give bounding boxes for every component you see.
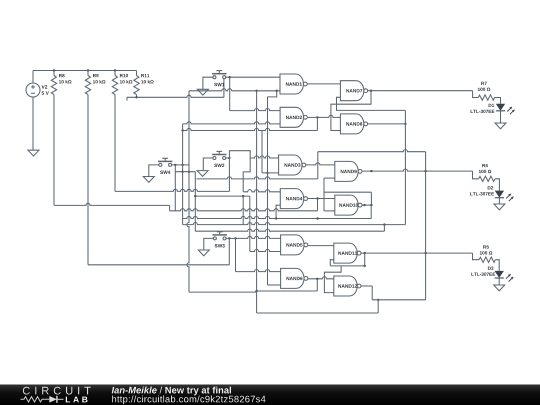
wire NAND8 out to bus V405 bbox=[368, 123, 406, 125]
wire SW4 sub-bus bbox=[174, 165, 176, 211]
logo LAB bbox=[66, 397, 88, 403]
logo diode bbox=[49, 396, 57, 403]
ground D3 bbox=[494, 285, 505, 291]
node NAND1-B fb2 bbox=[276, 90, 278, 92]
wire jog to bus x267 bbox=[268, 91, 277, 97]
gate NAND8 bbox=[340, 114, 363, 134]
wire NAND4 out drop bbox=[317, 199, 319, 211]
wire SW3 node down to R9 line bbox=[228, 238, 230, 264]
node SW4 a bbox=[174, 164, 176, 166]
LED D3 bbox=[495, 271, 504, 278]
gate NAND11 bbox=[334, 243, 357, 263]
wire SW4 right terminal bbox=[172, 164, 190, 166]
node SW1 out bbox=[229, 76, 231, 78]
wire NAND9 out to R6 bbox=[362, 169, 473, 171]
wire bus V243 bbox=[242, 196, 244, 225]
wire NAND4 out to NAND10 input A bbox=[308, 198, 335, 200]
wire bus V189 (NAND1-B feedback) bbox=[187, 91, 189, 292]
ground SW1 bbox=[197, 89, 208, 95]
node R11 bottom bbox=[135, 96, 137, 98]
ground D2 bbox=[494, 204, 505, 210]
resistor R8 bbox=[51, 76, 56, 95]
node NAND9-R6 bus bbox=[424, 170, 426, 172]
wire V378 riser bbox=[377, 300, 379, 313]
voltage source V2 bbox=[32, 71, 34, 84]
wire bus V256 down bbox=[256, 91, 258, 313]
wire R9 line bbox=[88, 264, 229, 266]
wire SW3 left to ground bbox=[204, 238, 213, 250]
gate NAND10 bbox=[335, 195, 358, 215]
wire bus H231 bbox=[195, 229, 384, 231]
wire NAND12 out drop bbox=[371, 286, 373, 300]
wire NAND11 input B stub bbox=[330, 260, 334, 266]
wire NAND6 input B bbox=[268, 284, 281, 286]
gate NAND5 bbox=[281, 235, 304, 255]
wire NAND7 fb down-left bbox=[331, 91, 371, 131]
wire NAND10 out riser to H218 bbox=[370, 205, 372, 218]
wire bus V384 riser bbox=[383, 225, 385, 232]
footer url bbox=[112, 396, 265, 405]
node NAND2 out bbox=[316, 116, 318, 118]
wire D1 to ground bbox=[500, 111, 502, 123]
node bus256 bottom bbox=[255, 290, 257, 292]
node SW4 b bbox=[181, 164, 183, 166]
resistor R7 bbox=[473, 91, 479, 98]
gate NAND12 bbox=[334, 276, 357, 296]
wire bus V250 bbox=[249, 196, 251, 251]
resistor R6 bbox=[473, 171, 479, 179]
wire R8 line jog bbox=[54, 203, 170, 205]
footer titles bbox=[112, 387, 157, 394]
wire V324 branch bbox=[323, 178, 325, 211]
wire R10 line to SW2 bbox=[115, 189, 229, 191]
wire NAND3 out to NAND9 bbox=[306, 163, 335, 165]
switch SW4 bbox=[159, 163, 162, 166]
wire NAND2 out to NAND8 input A bbox=[307, 115, 340, 117]
wire SW2 left to ground bbox=[203, 158, 213, 171]
node NAND7 out bbox=[370, 90, 372, 92]
wire NAND5 out to NAND11 bbox=[308, 245, 334, 247]
node V378 bbox=[377, 299, 379, 301]
wire bus H310 bbox=[257, 312, 379, 314]
node SW3 out a bbox=[228, 237, 230, 239]
switch SW2 bbox=[213, 157, 216, 160]
node rail-R9 bbox=[87, 69, 89, 71]
node sub-bus c bbox=[188, 171, 190, 173]
wire SW1 right terminal down bbox=[223, 79, 225, 98]
node rail-R10 bbox=[114, 69, 116, 71]
wire NAND7 out to R7 bbox=[368, 90, 473, 92]
wire D2 to ground bbox=[498, 198, 500, 204]
switch SW1 bbox=[213, 76, 216, 79]
resistor R11 bbox=[134, 76, 139, 95]
wire NAND10 input B bbox=[324, 210, 335, 212]
wire SW3 branch down bbox=[235, 238, 237, 271]
wire H179 bbox=[196, 177, 317, 179]
node NAND1-B fb1 bbox=[255, 90, 257, 92]
ground SW4 bbox=[143, 177, 154, 183]
wire SW2 node down to R10 line bbox=[228, 158, 230, 191]
switch SW3 bbox=[213, 237, 216, 240]
gate NAND4 bbox=[280, 189, 303, 209]
wire NAND3 input B line bbox=[262, 172, 279, 174]
wire H299 bbox=[372, 299, 425, 301]
wire NAND6 input A bbox=[236, 270, 281, 272]
CircuitLab logo footer bbox=[0, 385, 540, 405]
wire NAND1 out to NAND7 bbox=[307, 83, 340, 85]
node H224-V384 bbox=[383, 223, 385, 225]
wire SW2 branch to NAND4 input A bbox=[243, 158, 250, 192]
LED D2 bbox=[495, 191, 504, 198]
wire NAND2 input B bbox=[183, 122, 281, 124]
gate NAND9 bbox=[335, 161, 358, 181]
wire bus V267 down bbox=[267, 97, 269, 285]
wire NAND1 input B bbox=[189, 89, 280, 91]
wire bus H218 (row2 lockout) bbox=[183, 216, 372, 218]
gate NAND7 bbox=[340, 81, 363, 101]
resistor R5 bbox=[473, 253, 480, 260]
node V425 nand11 bbox=[424, 252, 426, 254]
wire V317 drop bbox=[317, 152, 319, 179]
LED D1 bbox=[496, 104, 505, 111]
wire SW1 node down to NAND2 input A bbox=[229, 77, 231, 110]
resistor R10 bbox=[112, 76, 117, 95]
node NAND6 out bbox=[316, 278, 318, 280]
wire bus H224 (SW2 lockout) bbox=[183, 223, 406, 225]
wire bus V262 bbox=[261, 131, 263, 173]
wire bus H196 bbox=[195, 195, 250, 197]
wire fb H192 bbox=[324, 191, 371, 193]
gate NAND2 bbox=[280, 107, 303, 127]
ground D1 bbox=[495, 123, 506, 129]
wire V371 down to NAND10 out bbox=[370, 192, 372, 205]
wire bus H130 SW4 line bbox=[183, 128, 318, 130]
wire R11 to SW1 node bbox=[126, 97, 128, 100]
gate NAND6 bbox=[281, 268, 304, 288]
wire NAND6 out to NAND12 bbox=[308, 277, 334, 279]
logo text CIRCUIT bbox=[23, 387, 91, 395]
wire NAND4 input B stub bbox=[276, 205, 280, 218]
ground V2 bbox=[28, 150, 39, 156]
wire NAND12 out bbox=[361, 285, 372, 287]
node SW2 out bbox=[228, 157, 230, 159]
wire SW1 right to NAND1 input A bbox=[226, 76, 280, 78]
wire SW4 left to ground bbox=[149, 165, 159, 177]
wire top rail bbox=[33, 70, 137, 72]
wire D3 to ground bbox=[498, 278, 500, 285]
wire NAND5 input B bbox=[250, 249, 281, 251]
node NAND10 out b bbox=[370, 204, 372, 206]
wire NAND10 out bbox=[362, 204, 371, 206]
wire bus V195 bbox=[194, 172, 196, 232]
wire SW3 right to NAND5 input A bbox=[226, 236, 281, 238]
node H218 risers bbox=[275, 217, 277, 219]
gate NAND3 bbox=[279, 155, 302, 175]
wire NAND9 input B jog bbox=[324, 177, 335, 179]
wire SW2 to NAND3 input A bbox=[250, 156, 278, 158]
wire row2 lockout loop bbox=[318, 150, 426, 152]
wire NAND11 out to R5 bbox=[361, 252, 473, 254]
node bus267 nand3b bbox=[266, 172, 268, 174]
wire bus V405 bbox=[404, 110, 406, 224]
wire SW2 right jog over bbox=[226, 157, 230, 159]
node NAND8 out bus bbox=[404, 123, 406, 125]
node NAND11 out bbox=[364, 252, 366, 254]
node bus195-196 bbox=[194, 195, 196, 197]
resistor R9 bbox=[85, 76, 90, 95]
node NAND9 out bbox=[370, 170, 372, 172]
wire NAND7 input B from latch bbox=[337, 97, 406, 110]
wire NAND11 fb down bbox=[364, 253, 366, 266]
wire NAND6 out drop bbox=[316, 279, 318, 291]
wire bus V182 bbox=[182, 124, 184, 225]
wire SW1 left to ground bbox=[203, 77, 213, 89]
logo resistor zigzag bbox=[21, 397, 50, 402]
wire NAND12 input B line bbox=[189, 291, 256, 292]
node NAND10 out a bbox=[363, 204, 365, 206]
gate NAND1 bbox=[280, 74, 303, 94]
wire NAND12 input B feed bbox=[324, 266, 341, 293]
node bus H196-V243 bbox=[242, 195, 244, 197]
node sub-bus b bbox=[181, 171, 183, 173]
node SW3 out b bbox=[234, 237, 236, 239]
ground SW3 bbox=[198, 250, 209, 256]
node bus130 bbox=[181, 129, 183, 131]
node NAND4 out bbox=[316, 197, 318, 199]
node fb265 bbox=[364, 265, 366, 267]
wire H265 bbox=[330, 265, 364, 267]
node rail-R8 bbox=[53, 69, 55, 71]
ground SW2 bbox=[197, 171, 208, 177]
